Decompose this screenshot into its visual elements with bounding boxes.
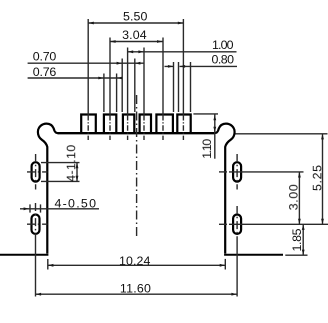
mounting hole oval top-right	[233, 162, 241, 181]
svg-text:10.24: 10.24	[119, 254, 151, 268]
dimension 0.70 (pin 3 width) with leader to label	[28, 50, 145, 65]
svg-text:11.60: 11.60	[120, 282, 151, 296]
extension pin4 center	[143, 48, 145, 116]
extension pin1 center	[87, 19, 89, 115]
svg-text:0.80: 0.80	[212, 52, 235, 66]
dimension 0.76 (pin 2 width) with leader to label	[28, 65, 123, 79]
bottom-left edge stub	[0, 254, 48, 256]
extension pin6 center	[182, 19, 184, 115]
dimension 5.50	[88, 9, 183, 24]
pin 1	[81, 115, 96, 135]
dimension 5.25 vertical right	[310, 134, 324, 225]
mounting hole oval bottom-left	[32, 215, 40, 234]
svg-text:0.70: 0.70	[33, 50, 57, 64]
connector body outline with rounded ear tabs	[0, 124, 283, 255]
pin 2	[104, 115, 116, 135]
extension pin2 right edge	[116, 74, 118, 113]
dimension 4-1.10 (oval height)	[41, 145, 80, 182]
mounting hole oval bottom-right	[233, 215, 241, 234]
extension lines (thin solid)	[36, 19, 328, 297]
extension oval row 1 right solid part	[229, 171, 304, 173]
extension body top level right (5.25 top)	[236, 133, 328, 135]
centerline oval top-left vertical	[35, 154, 37, 190]
centerline oval bottom-right horizontal (short)	[219, 223, 229, 225]
pin 6	[177, 115, 190, 135]
dimension 1.00 (pitch pins 3-4) with leader to label	[128, 38, 237, 53]
extension pin3 left edge	[121, 59, 123, 113]
dimension 0.80 (pin width) with leader to label	[165, 52, 238, 68]
extension oval row 2 right solid part	[229, 223, 328, 225]
centerline oval bottom-right vertical	[236, 206, 238, 240]
pin 3	[123, 115, 134, 135]
svg-text:5.50: 5.50	[123, 9, 148, 23]
svg-text:0.76: 0.76	[33, 65, 57, 79]
pin 5	[156, 115, 173, 135]
extension pin6 right edge	[190, 62, 192, 112]
dimension 1.10 (pin height above body) vertical	[200, 114, 216, 159]
extension pin5 center	[162, 38, 164, 116]
centerline oval bottom-left horizontal	[27, 223, 48, 225]
extension 11.60 right (oval centerline continued)	[236, 240, 238, 297]
centerline oval bottom-left vertical	[35, 203, 37, 240]
dimension 4-0.50 (oval width) with leader	[20, 197, 99, 213]
svg-text:1.00: 1.00	[212, 38, 234, 52]
bottom-right edge stub (1.85 extension)	[224, 254, 283, 256]
svg-text:4-0.50: 4-0.50	[55, 197, 97, 211]
oval centerlines (dash-dot)	[27, 154, 237, 240]
dimension 11.60 (hole span)	[36, 282, 238, 296]
body top edge	[58, 132, 215, 134]
pin centerlines inside pins (dash-dot)	[88, 115, 183, 140]
dimension 10.24 (body width)	[48, 254, 226, 270]
svg-text:5.25: 5.25	[310, 165, 324, 191]
extension 11.60 left (oval centerline continued)	[35, 240, 37, 297]
extension pin2 left edge	[103, 74, 105, 113]
svg-text:1.10: 1.10	[200, 139, 214, 159]
extension pin6 left edge	[178, 62, 180, 112]
svg-text:3.04: 3.04	[122, 28, 147, 42]
svg-text:1.85: 1.85	[290, 228, 304, 251]
dimension 3.04	[110, 28, 163, 43]
extension pin2 center	[109, 38, 111, 116]
right ear tab and right side edge	[214, 124, 235, 254]
svg-text:3.00: 3.00	[287, 184, 301, 210]
vertical centerline of drawing (dash-dot)	[136, 95, 138, 238]
left ear tab and left side edge	[38, 124, 59, 254]
centerline oval top-right vertical	[236, 154, 238, 190]
centerline oval top-right horizontal (short)	[219, 171, 229, 173]
extension pin top level right	[193, 113, 218, 115]
centerline oval top-left horizontal	[27, 171, 48, 173]
dimension 1.85 vertical right	[285, 224, 307, 255]
svg-text:4-1.10: 4-1.10	[64, 145, 78, 182]
extension pin5 right edge	[173, 62, 175, 112]
extension pin3 right edge	[134, 59, 136, 113]
mounting hole oval top-left	[32, 162, 40, 181]
pin 4	[140, 115, 151, 135]
dimension 3.00 vertical right	[287, 172, 301, 224]
extension pin3 center	[127, 48, 129, 116]
